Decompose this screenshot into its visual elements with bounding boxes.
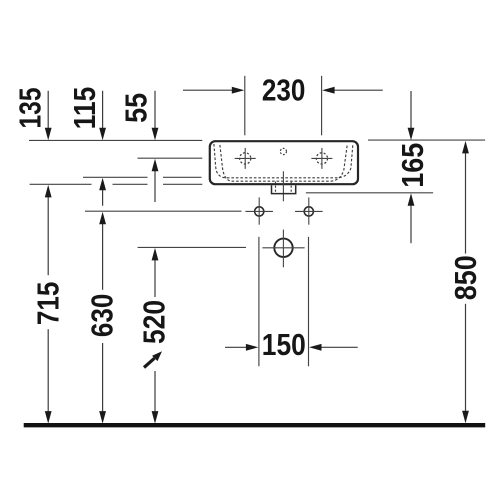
wire: siphon level reference line (520) [138, 246, 246, 248]
dim 850 shaft upper run [465, 152, 467, 254]
svg-text:165: 165 [396, 143, 430, 188]
svg-text:230: 230 [262, 74, 306, 108]
dim 165 bottom arrow shaft [410, 204, 412, 243]
dim 55 bottom arrow shaft [154, 170, 156, 202]
dim 150 arrow shaft left [225, 346, 248, 348]
overflow hole dashed circle [280, 148, 286, 154]
arrowhead left at 230 right ext [322, 87, 335, 94]
washbasin outline [210, 141, 358, 184]
arrowhead down at floor x103 [99, 411, 106, 424]
fixing hole right circle [304, 207, 313, 216]
arrowhead down at rim line x48 [45, 128, 52, 141]
arrowhead up at siphon line [152, 248, 159, 261]
arrowhead down at floor x155 [152, 411, 159, 424]
svg-text:135: 135 [14, 87, 48, 128]
dim 520 shaft upper run [154, 259, 156, 297]
tap hole left crosshair [235, 157, 256, 159]
arrowhead down at rim line x411 [408, 128, 415, 141]
dim 150 arrow shaft right [320, 346, 358, 348]
arrowhead right at 230 left ext [232, 87, 245, 94]
arrowhead up at rim line x465 [462, 141, 469, 154]
arrowhead up at 135 line [45, 185, 52, 198]
dim 230 arrow shaft left [183, 89, 235, 91]
arrowhead down at rim line x155 [152, 128, 159, 141]
floor line [24, 423, 486, 427]
arrowhead up at outlet line [408, 193, 415, 206]
svg-text:520: 520 [137, 300, 171, 344]
wire: fixing-hole level reference line (630) [85, 210, 242, 212]
tap hole left dashed circle [240, 153, 251, 164]
svg-text:55: 55 [120, 93, 154, 123]
dim 135/715 shaft upper run [47, 196, 49, 275]
drain center axis line [282, 171, 284, 201]
dim 115 bottom arrow shaft [102, 189, 104, 206]
dim 230 arrow shaft right [333, 89, 383, 91]
tap hole right crosshair [311, 157, 332, 159]
wire: 150 dim extension line right [308, 237, 310, 366]
dim 850 shaft lower run [465, 304, 467, 413]
fixing hole left crosshair [245, 210, 273, 212]
svg-text:630: 630 [85, 294, 119, 338]
arrowhead down at floor x465 [462, 411, 469, 424]
basin inner wall dashed inner contour [220, 145, 347, 181]
arrowhead right at 150 left ext [246, 344, 259, 351]
dim 55 arrow shaft top [154, 91, 156, 130]
drain outlet box [272, 185, 296, 193]
siphon outlet circle [274, 239, 292, 257]
dim 630 shaft lower run [102, 343, 104, 413]
wire: reference line 115 below rim [83, 176, 148, 178]
svg-text:850: 850 [449, 255, 483, 300]
wire: outlet underside reference line (165) [306, 192, 433, 194]
svg-text:150: 150 [262, 328, 306, 362]
dim 630 shaft upper run [102, 223, 104, 290]
fixing hole left circle [255, 207, 264, 216]
dim 115 arrow shaft top [102, 91, 104, 130]
tap hole right dashed circle [316, 153, 327, 164]
arrowhead up at fixing line [99, 212, 106, 225]
wire: 150 dim extension line left [258, 237, 260, 366]
dim 135 arrow shaft top [47, 91, 49, 130]
basin inner wall dashed outer contour [214, 144, 353, 178]
drain hole dashed sides [276, 182, 292, 194]
fixing hole right crosshair [295, 210, 323, 212]
wire: top rim reference line left segment [29, 139, 202, 141]
wire: top rim reference line right segment [368, 139, 485, 141]
wire: 230 dim extension line left [244, 76, 246, 136]
svg-text:115: 115 [68, 87, 102, 130]
dim 165 arrow shaft top [410, 91, 412, 130]
wire: tap-hole level reference line (55) [138, 157, 203, 159]
arrowhead down at floor x48 [45, 411, 52, 424]
wire: 230 dim extension line right [321, 76, 323, 136]
arrowhead up at 115 line [99, 178, 106, 191]
wire: reference line 135 below rim / basin underside [30, 183, 92, 185]
height-adjust arrow near 520 [144, 351, 162, 367]
dim 715 shaft lower run [47, 329, 49, 413]
arrowhead left at 150 right ext [309, 344, 322, 351]
arrowhead up at 55 line [152, 159, 159, 172]
svg-text:715: 715 [31, 282, 65, 326]
siphon crosshair [262, 247, 304, 249]
arrowhead down at rim line x103 [99, 128, 106, 141]
dim 520 shaft lower run [154, 371, 156, 413]
